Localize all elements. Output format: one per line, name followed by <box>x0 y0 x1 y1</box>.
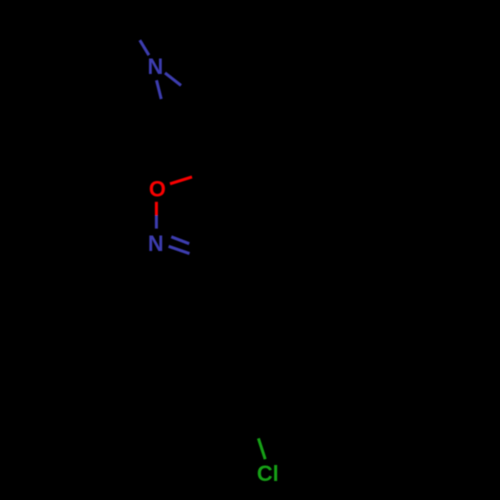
wire: bond C-Cl (Cl-side half, green) <box>258 438 265 459</box>
wire: bond O1-N2 lower half (blue) <box>155 215 158 228</box>
svg-text:N: N <box>148 54 164 79</box>
wire: bond CH3-N1 (N-side half, blue) <box>140 40 149 55</box>
wire: bond O1-N2 upper half (red) <box>155 202 158 216</box>
wire: bond N1-C (down-right, N-side half, blue) <box>165 73 181 86</box>
svg-text:Cl: Cl <box>257 461 279 486</box>
wire: bond N1-C (down, N-side half, blue) <box>157 80 162 99</box>
wire: double bond N2=C3 main line (N-side half, blue) <box>169 246 190 253</box>
wire: double bond N2=C3 inner line (N-side half, blue) <box>171 237 189 244</box>
svg-text:O: O <box>149 176 166 201</box>
wire: bond O1-C5 (O-side half, red) <box>170 177 192 184</box>
svg-text:N: N <box>148 231 164 256</box>
